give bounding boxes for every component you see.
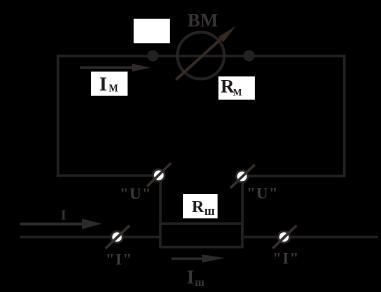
arrow I input current: [20, 219, 102, 229]
label I_sh: [187, 267, 205, 289]
svg-text:М: М: [109, 83, 119, 94]
svg-text:"I": "I": [273, 251, 300, 268]
resistor Rsh shunt bar: [160, 224, 242, 248]
empty white label box: [134, 19, 170, 43]
terminal I right: [273, 226, 297, 249]
label R_sh box: [183, 194, 218, 218]
wire right sense lead: [241, 179, 244, 225]
wire top horizontal: [57, 55, 344, 58]
svg-text:М: М: [233, 88, 242, 98]
arrow I_sh shunt current: [172, 255, 226, 263]
terminal U left: [147, 163, 171, 187]
meter BM needle: [176, 26, 236, 80]
svg-text:"I": "I": [106, 251, 133, 268]
svg-text:"U": "U": [120, 186, 152, 203]
svg-text:ВМ: ВМ: [188, 10, 219, 31]
svg-text:R: R: [192, 197, 205, 216]
label R_M box: [218, 76, 255, 99]
wire right vertical: [343, 55, 346, 178]
meter BM circle: [177, 32, 224, 79]
terminal I left: [106, 226, 130, 249]
label I_M box: [91, 72, 128, 96]
svg-text:"U": "U": [247, 186, 279, 203]
svg-text:ш: ш: [204, 204, 215, 218]
svg-text:ш: ш: [195, 277, 205, 289]
arrow I_M current direction: [80, 64, 151, 72]
terminal U right: [230, 165, 254, 189]
wire main bus left: [20, 236, 160, 239]
wire lower-left horizontal to U terminal: [57, 174, 156, 177]
wire left sense lead: [159, 178, 162, 225]
wire lower-right horizontal from U terminal: [245, 175, 346, 178]
node left junction dot: [147, 50, 158, 61]
wire left vertical: [57, 55, 60, 177]
svg-text:I: I: [187, 267, 195, 289]
wire main bus right: [242, 236, 378, 239]
svg-text:I: I: [99, 73, 107, 95]
node right junction dot: [243, 50, 254, 61]
svg-text:I: I: [61, 209, 66, 224]
